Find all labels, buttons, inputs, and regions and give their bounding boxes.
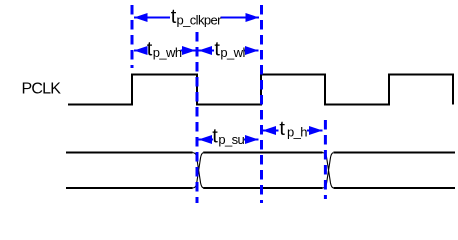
wire data transition X 2	[323, 153, 334, 189]
dimension t_p_su	[199, 135, 259, 144]
svg-text:p_h: p_h	[287, 125, 307, 140]
label t_p_su	[212, 126, 244, 148]
dimension t_p_wh	[134, 46, 196, 55]
svg-text:t: t	[212, 126, 218, 148]
svg-text:p_clkper: p_clkper	[177, 13, 223, 28]
wire dashed edge line 4 (data hold edge)	[324, 120, 327, 199]
svg-text:PCLK: PCLK	[22, 81, 62, 98]
svg-text:t: t	[279, 118, 285, 140]
wire dashed edge line 3 (PCLK rising edge 2)	[260, 5, 263, 203]
svg-text:p_wl: p_wl	[220, 45, 245, 60]
label t_p_wl	[214, 39, 245, 61]
svg-text:p_su: p_su	[218, 132, 244, 147]
svg-text:p_wh: p_wh	[153, 45, 182, 60]
wire data bus top line	[66, 152, 455, 154]
wire dashed edge line 1 (PCLK rising edge 1)	[131, 5, 134, 68]
dimension t_p_wl	[199, 46, 259, 55]
label t_p_wh	[147, 39, 182, 61]
wire data transition X 1	[193, 153, 204, 189]
label t_p_clkper	[171, 6, 222, 28]
wire data bus bottom line	[66, 187, 455, 189]
dimension t_p_h	[263, 126, 323, 135]
wire dashed edge line 2 (PCLK falling edge 1)	[196, 32, 199, 203]
label t_p_h	[279, 118, 307, 140]
dimension t_p_clkper	[134, 13, 259, 22]
wire PCLK waveform	[68, 75, 453, 105]
